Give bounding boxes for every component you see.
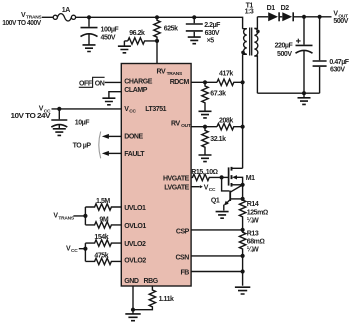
wire VCC to chip (52, 108, 122, 110)
svg-text:×5: ×5 (207, 38, 215, 45)
fuse F1 1A (53, 7, 75, 21)
diode D1 (267, 5, 280, 21)
resistor 32.1k (202, 127, 226, 155)
node VCC input label (11, 106, 52, 121)
node junction GND (131, 308, 135, 312)
node VOUT label (333, 11, 348, 25)
ground under 100uF (83, 45, 96, 52)
svg-text:CSP: CSP (176, 228, 190, 235)
wire output ground bus (257, 92, 319, 94)
svg-text:0.47µF: 0.47µF (329, 59, 349, 66)
switch OFF/ON toggle (79, 77, 105, 87)
node TO uP label with bracket (73, 132, 101, 159)
wire LVGATE to VCC (191, 184, 216, 193)
node junction 10uF (57, 107, 61, 111)
node junction bus (302, 91, 306, 95)
svg-text:M1: M1 (246, 175, 255, 182)
wire VTRANS to divider (73, 207, 85, 225)
svg-text:R13: R13 (247, 231, 259, 238)
svg-text:RDCM: RDCM (170, 79, 190, 86)
resistor 67.3k (202, 82, 226, 111)
wire FAULT output arrow (102, 151, 121, 156)
svg-text:TRANS: TRANS (167, 71, 183, 77)
node VCC sense label (66, 246, 78, 255)
ground output bus (303, 93, 305, 97)
node junction R14 top (241, 197, 245, 201)
node junction 220uF (302, 15, 306, 19)
wire GND pin down (132, 286, 134, 314)
transformer phase dot secondary (256, 30, 260, 34)
svg-text:DONE: DONE (124, 134, 143, 141)
svg-text:625k: 625k (164, 26, 178, 33)
wire DONE output arrow (102, 134, 121, 139)
svg-text:OVLO2: OVLO2 (124, 257, 146, 264)
svg-text:¼W: ¼W (247, 246, 259, 254)
svg-text:CHARGE: CHARGE (124, 79, 152, 86)
node VTRANS sense label (53, 213, 74, 222)
wire FB (191, 271, 243, 273)
svg-text:1A: 1A (62, 7, 70, 14)
diode D2 (281, 5, 294, 21)
wire secondary to D1 (257, 16, 268, 18)
node junction RDCM (203, 80, 207, 84)
resistor 96.2k (124, 30, 157, 46)
node junction 100uF (87, 15, 91, 19)
ground under 10uF (53, 129, 66, 136)
svg-text:208k: 208k (219, 118, 233, 125)
resistor 154k (85, 234, 121, 246)
svg-text:LT3751: LT3751 (145, 106, 166, 113)
svg-text:2.2µF: 2.2µF (204, 22, 221, 29)
node VTRANS input label (2, 12, 42, 27)
svg-text:68mΩ: 68mΩ (247, 239, 265, 246)
svg-text:100µF: 100µF (101, 27, 120, 34)
svg-text:500V: 500V (333, 18, 348, 25)
resistor R15 10ohm (191, 169, 222, 180)
wire RVOUT row (191, 126, 217, 128)
resistor 9M (85, 216, 121, 228)
node junction 417k drain (241, 80, 245, 84)
svg-text:TRANS: TRANS (58, 215, 74, 221)
node junction M1 source (241, 183, 245, 187)
pin RVTRANS label (157, 69, 184, 78)
resistor R14 125mohm (239, 185, 268, 230)
svg-text:OUT: OUT (181, 123, 191, 129)
svg-text:RV: RV (157, 69, 166, 76)
resistor 208k (217, 118, 243, 130)
svg-text:417k: 417k (219, 71, 233, 78)
wire divider to RVTRANS pin (156, 41, 158, 64)
transistor Q1 (211, 177, 243, 210)
svg-text:220µF: 220µF (275, 42, 294, 49)
svg-text:475k: 475k (94, 253, 108, 260)
svg-text:¼W: ¼W (247, 217, 259, 225)
svg-text:R15, 10Ω: R15, 10Ω (191, 169, 217, 176)
svg-text:TO µP: TO µP (73, 143, 92, 150)
svg-text:OVLO1: OVLO1 (124, 223, 146, 230)
ground under 67.3k (199, 111, 212, 118)
svg-text:154k: 154k (94, 234, 108, 241)
svg-text:630V: 630V (330, 66, 345, 73)
op-amp U1 LT3751 chip body (121, 64, 191, 287)
svg-text:10V TO 24V: 10V TO 24V (11, 113, 51, 120)
svg-text:UVLO2: UVLO2 (124, 241, 146, 248)
resistor 625k (154, 17, 178, 41)
svg-text:RBG: RBG (144, 278, 159, 285)
wire drain vertical (242, 54, 244, 168)
svg-text:GND: GND (124, 278, 139, 285)
wire VTRANS to fuse (42, 16, 53, 18)
ground at Q1 emitter (216, 212, 229, 219)
wire CSN (191, 255, 243, 257)
node junction gate (220, 175, 224, 179)
transistor M1 NMOS (229, 167, 256, 187)
svg-text:450V: 450V (101, 34, 116, 41)
node junction VTRANS divider (83, 214, 87, 218)
wire VCC to divider (79, 243, 86, 261)
svg-text:125mΩ: 125mΩ (247, 210, 268, 217)
svg-text:1.5M: 1.5M (96, 198, 110, 205)
svg-text:RV: RV (171, 120, 180, 127)
pin RVOUT label (171, 120, 191, 129)
ground at CLAMP (102, 98, 115, 105)
node junction CSP (241, 228, 245, 232)
svg-text:Q1: Q1 (211, 198, 220, 205)
wire CSP (191, 229, 243, 231)
wire sense chain down (242, 256, 244, 286)
resistor 1.5M (85, 198, 121, 210)
svg-text:UVLO1: UVLO1 (124, 205, 146, 212)
node junction 2.2uF (192, 15, 196, 19)
resistor 1.11k RBG (133, 286, 174, 310)
wire ON to CHARGE pin (105, 81, 122, 83)
capacitor 10uF (51, 109, 90, 128)
ground under 32.1k (199, 155, 212, 162)
ground under 2.2uF (188, 37, 201, 44)
svg-text:1.11k: 1.11k (159, 296, 174, 303)
resistor 475k (85, 253, 121, 265)
node junction VCC divider (83, 247, 87, 251)
svg-text:9M: 9M (99, 216, 108, 223)
node junction RVTRANS divider (155, 39, 159, 43)
capacitor 220uF 500V (275, 17, 313, 93)
ground bottom right (235, 287, 250, 294)
transformer phase dot primary (241, 51, 245, 55)
resistor 417k (217, 71, 243, 86)
svg-text:CLAMP: CLAMP (124, 87, 147, 94)
transformer secondary winding (254, 17, 257, 93)
wire CLAMP to ground (109, 92, 121, 98)
capacitor 2.2uF 630V x5 (186, 17, 221, 44)
svg-text:LVGATE: LVGATE (164, 185, 189, 192)
svg-text:R14: R14 (247, 201, 259, 208)
svg-text:CC: CC (71, 248, 78, 254)
svg-text:630V: 630V (205, 30, 220, 37)
svg-text:CC: CC (209, 187, 216, 193)
svg-text:500V: 500V (277, 51, 292, 58)
ground bottom left (125, 314, 140, 321)
svg-text:D1: D1 (267, 5, 276, 12)
pin VCC label (124, 106, 136, 115)
wire RDCM row (191, 81, 217, 83)
svg-text:OFF: OFF (79, 81, 93, 88)
node junction RVOUT (203, 125, 207, 129)
wire gate node to M1 gate (222, 176, 229, 178)
svg-text:HVGATE: HVGATE (163, 176, 190, 183)
resistor R13 68mohm (239, 230, 264, 256)
svg-text:D2: D2 (281, 5, 290, 12)
wire D2 to VOUT (293, 16, 331, 18)
transformer core (250, 28, 252, 56)
node junction 625k (155, 15, 159, 19)
node junction 0.47uF (318, 15, 322, 19)
svg-text:FB: FB (180, 270, 189, 277)
ground at 96.2k (118, 46, 131, 53)
node junction FB (241, 269, 245, 273)
svg-text:1:3: 1:3 (245, 9, 254, 16)
node junction 208k drain (241, 125, 245, 129)
capacitor 100uF 450V (81, 17, 120, 44)
svg-text:67.3k: 67.3k (210, 91, 226, 98)
svg-text:32.1k: 32.1k (210, 136, 226, 143)
svg-text:10µF: 10µF (75, 119, 90, 126)
capacitor 0.47uF 630V (313, 17, 350, 93)
wire top rail to transformer primary (76, 17, 243, 28)
svg-text:96.2k: 96.2k (129, 30, 145, 37)
svg-text:FAULT: FAULT (124, 151, 145, 158)
svg-text:CC: CC (129, 109, 136, 115)
svg-text:CSN: CSN (175, 254, 189, 261)
wire D1 to D2 (279, 16, 282, 18)
node junction CSN (241, 254, 245, 258)
svg-text:100V TO 400V: 100V TO 400V (2, 20, 41, 27)
svg-text:ON: ON (95, 81, 105, 88)
transformer T1 1:3 primary winding (243, 2, 254, 54)
